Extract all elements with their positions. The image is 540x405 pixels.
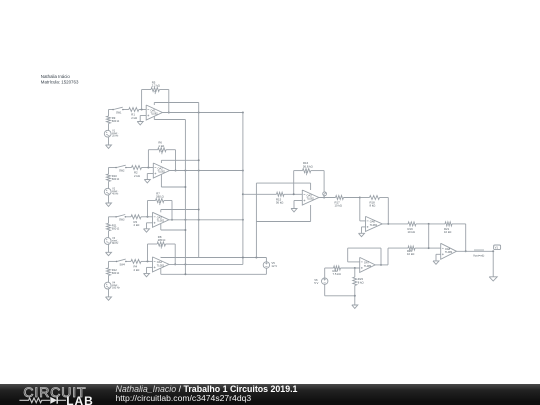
svg-text:5 V: 5 V (314, 281, 318, 285)
svg-text:TL082: TL082 (158, 169, 166, 173)
svg-text:600 Ω: 600 Ω (112, 119, 120, 123)
svg-text:10 kΩ: 10 kΩ (444, 230, 451, 234)
svg-text:TL082: TL082 (445, 250, 453, 254)
svg-text:56.8 kΩ: 56.8 kΩ (303, 164, 313, 168)
svg-text:8 kΩ: 8 kΩ (358, 280, 364, 284)
svg-text:600 Ω: 600 Ω (112, 271, 120, 275)
svg-text:SW3: SW3 (119, 219, 125, 222)
svg-text:TL082: TL082 (150, 111, 158, 115)
svg-text:40 Hz: 40 Hz (112, 193, 119, 196)
svg-text:2 kΩ: 2 kΩ (134, 174, 140, 178)
svg-text:160 Hz: 160 Hz (112, 287, 120, 290)
svg-text:600 Ω: 600 Ω (112, 177, 120, 181)
svg-text:7.5 kΩ: 7.5 kΩ (333, 272, 341, 276)
svg-text:1 kΩ: 1 kΩ (158, 144, 164, 148)
svg-text:TL082: TL082 (370, 223, 378, 227)
svg-text:56 kΩ: 56 kΩ (276, 201, 283, 205)
svg-text:V1: V1 (495, 246, 499, 250)
svg-text:LAB: LAB (66, 394, 93, 405)
svg-text:TL082: TL082 (157, 263, 165, 267)
svg-text:Matrícula: 1520763: Matrícula: 1520763 (41, 80, 79, 85)
svg-text:Vout=v(t): Vout=v(t) (473, 253, 484, 257)
svg-text:560 Ω: 560 Ω (156, 195, 164, 199)
svg-text:2 kΩ: 2 kΩ (131, 116, 137, 120)
svg-text:SW1: SW1 (116, 111, 122, 114)
svg-text:Nathalia Inácio: Nathalia Inácio (41, 74, 71, 79)
svg-text:20 Hz: 20 Hz (112, 135, 119, 138)
svg-text:2.2 kΩ: 2.2 kΩ (152, 84, 160, 88)
svg-text:TL082: TL082 (364, 264, 372, 268)
svg-text:12 V: 12 V (271, 264, 277, 268)
svg-text:2 kΩ: 2 kΩ (134, 223, 140, 227)
svg-text:2 kΩ: 2 kΩ (134, 268, 140, 272)
svg-text:SW4: SW4 (120, 263, 126, 266)
svg-text:80 Hz: 80 Hz (112, 242, 119, 245)
svg-text:10 kΩ: 10 kΩ (407, 252, 414, 256)
svg-text:10 kΩ: 10 kΩ (408, 230, 415, 234)
svg-text:SW2: SW2 (119, 169, 125, 172)
svg-text:8 kΩ: 8 kΩ (370, 204, 376, 208)
svg-text:TL082: TL082 (157, 219, 165, 223)
svg-text:600 Ω: 600 Ω (112, 227, 120, 231)
svg-text:TL082: TL082 (307, 196, 315, 200)
svg-text:280 Ω: 280 Ω (158, 238, 166, 242)
svg-text:10 kΩ: 10 kΩ (335, 204, 342, 208)
